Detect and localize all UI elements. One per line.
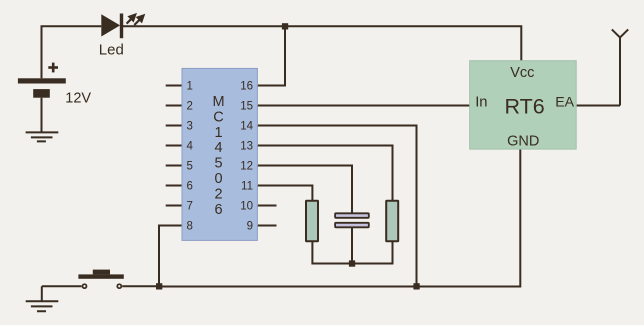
wire: pin 9 stub xyxy=(257,225,277,227)
svg-text:14: 14 xyxy=(240,121,253,133)
wire: pin 13 to resistor R2 xyxy=(257,146,393,201)
svg-text:4: 4 xyxy=(187,141,194,153)
svg-text:16: 16 xyxy=(240,81,253,93)
wire: pin 12 to crystal X1 xyxy=(257,166,352,214)
wire: pin 11 to resistor R1 xyxy=(257,186,312,201)
RT6 module U2 body xyxy=(470,61,577,149)
battery BT1 12V plates xyxy=(18,78,66,97)
resistor R1 xyxy=(306,201,318,242)
wire: pin 15 to RT6 In xyxy=(257,105,471,107)
svg-text:GND: GND xyxy=(507,133,539,149)
svg-text:2: 2 xyxy=(214,186,222,202)
svg-text:Vcc: Vcc xyxy=(510,65,534,81)
antenna ANT1 xyxy=(612,29,628,105)
svg-text:EA: EA xyxy=(555,94,574,110)
wire: bottom rail from button junction to RT6 GND xyxy=(159,149,520,287)
svg-text:3: 3 xyxy=(187,121,193,133)
label: U1 part number MC145026 (vertical) xyxy=(212,94,224,218)
svg-text:5: 5 xyxy=(187,161,193,173)
wire: pin 2 stub xyxy=(166,105,182,107)
junction: crystal bottom net xyxy=(349,260,355,266)
svg-text:M: M xyxy=(212,94,224,110)
svg-text:C: C xyxy=(213,109,223,125)
svg-text:7: 7 xyxy=(187,201,193,213)
wire: button right terminal to junction xyxy=(122,285,159,287)
wire: pin 8 to button junction xyxy=(159,226,182,287)
IC U1 MC145026 body xyxy=(182,68,257,240)
wire: battery positive riser to top rail xyxy=(42,26,102,78)
junction: pin 14 / bottom rail xyxy=(413,283,419,289)
ground (battery) xyxy=(26,132,59,141)
wire: top rail from LED to Vcc riser, down into RT6 Vcc xyxy=(123,26,522,60)
svg-text:6: 6 xyxy=(214,202,222,218)
wire: button ground stub xyxy=(41,286,43,301)
wire: crystal bottom stub xyxy=(351,228,353,264)
svg-text:4: 4 xyxy=(214,140,222,156)
svg-text:10: 10 xyxy=(240,201,253,213)
label: battery + xyxy=(48,63,58,73)
wire: pin 5 stub xyxy=(166,165,182,167)
wire: RT6 EA to antenna xyxy=(576,105,620,107)
wire: ground to button left terminal xyxy=(42,285,82,287)
svg-text:11: 11 xyxy=(241,181,253,193)
push button S1 xyxy=(78,270,123,289)
wire: pin 10 stub xyxy=(257,205,277,207)
wire: oscillator bottom net R1-X1-R2 xyxy=(312,241,392,264)
svg-text:1: 1 xyxy=(214,125,222,141)
wire: battery negative to ground xyxy=(41,98,43,133)
svg-text:6: 6 xyxy=(187,181,193,193)
wire: pin 6 stub xyxy=(166,185,182,187)
LED D1 xyxy=(101,14,123,39)
svg-text:15: 15 xyxy=(240,101,253,113)
svg-text:5: 5 xyxy=(214,156,222,172)
wire: pin 1 stub xyxy=(166,85,182,87)
svg-text:12V: 12V xyxy=(65,91,91,107)
svg-text:9: 9 xyxy=(247,221,253,233)
svg-text:2: 2 xyxy=(187,101,193,113)
LED emission arrows xyxy=(127,15,144,25)
junction: button / pin 8 / bottom rail xyxy=(156,283,162,289)
wire: pin 3 stub xyxy=(166,125,182,127)
wire: pin 16 riser from top rail junction xyxy=(257,26,285,85)
resistor R2 xyxy=(386,201,398,242)
svg-text:Led: Led xyxy=(99,42,124,59)
svg-text:0: 0 xyxy=(214,171,222,187)
ground (button) xyxy=(26,301,59,311)
svg-text:12: 12 xyxy=(240,161,253,173)
wire: pin 7 stub xyxy=(166,205,182,207)
wire: pin 14 to bottom rail xyxy=(257,126,417,287)
svg-text:In: In xyxy=(475,94,487,110)
svg-text:1: 1 xyxy=(187,81,193,93)
svg-text:8: 8 xyxy=(187,221,193,233)
svg-text:RT6: RT6 xyxy=(504,95,544,119)
wire: pin 4 stub xyxy=(166,145,182,147)
junction: top rail / pin 16 xyxy=(282,23,288,29)
svg-text:13: 13 xyxy=(240,141,253,153)
crystal X1 xyxy=(335,213,369,227)
